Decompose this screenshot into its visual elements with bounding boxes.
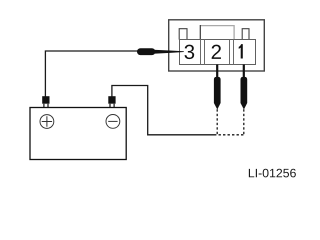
inline crimp terminal (pill body) bbox=[137, 48, 155, 55]
label 2 bbox=[212, 45, 221, 59]
inline crimp terminal tapered tip bbox=[153, 50, 184, 54]
keying tab middle bbox=[200, 26, 234, 40]
label 3 bbox=[185, 45, 195, 59]
dashed wire from pin 2 bbox=[216, 109, 218, 135]
positive symbol circle bbox=[40, 115, 54, 129]
pin terminal under cavity 2 bbox=[216, 65, 218, 79]
battery positive terminal neck bbox=[44, 104, 48, 108]
cavity divider 3|2 bbox=[201, 40, 205, 65]
label 1 bbox=[239, 44, 243, 58]
pin terminal under cavity 1 bbox=[243, 65, 245, 79]
battery body bbox=[30, 108, 126, 160]
keying square right bbox=[242, 29, 249, 40]
wire from battery negative terminal bbox=[112, 86, 214, 135]
cavity row bbox=[180, 40, 256, 65]
dashed wire segment joining pins to battery wire bbox=[214, 134, 245, 136]
battery negative terminal neck bbox=[110, 104, 114, 108]
dashed wire from pin 1 bbox=[243, 109, 245, 135]
wire from battery positive terminal to inline terminal bbox=[45, 51, 137, 97]
keying square left bbox=[179, 29, 187, 40]
battery positive terminal cap bbox=[42, 96, 49, 104]
caption LI-01256 bbox=[249, 169, 296, 178]
negative symbol circle bbox=[106, 115, 120, 129]
connector outer housing bbox=[169, 20, 265, 71]
cavity divider 2|1 bbox=[230, 40, 234, 65]
battery negative terminal cap bbox=[108, 96, 115, 104]
